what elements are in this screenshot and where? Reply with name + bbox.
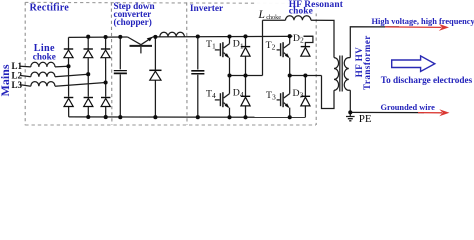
inverter leg B mid rail xyxy=(290,75,322,77)
svg-text:(chopper): (chopper) xyxy=(114,17,152,27)
T3 emitter arrowhead xyxy=(285,103,290,108)
diode D2 symbol xyxy=(301,47,310,57)
transformer core lines xyxy=(340,56,342,92)
junction: T1 collector top rail xyxy=(227,34,231,38)
svg-text:T3: T3 xyxy=(266,90,276,102)
dashed separator inverter/right (frame right edge) xyxy=(315,7,317,125)
svg-text:Rectifire: Rectifire xyxy=(30,3,70,14)
smoothing inductor on chopper output xyxy=(160,32,185,37)
T1 collector/emitter verticals xyxy=(229,37,231,76)
svg-text:D4: D4 xyxy=(233,87,244,99)
dashed frame top border xyxy=(25,2,316,3)
diode D1 branch xyxy=(245,36,247,75)
wire: bottom DC- rail xyxy=(69,116,306,118)
red grounded wire arrow xyxy=(418,112,442,114)
junction: L1 phase node xyxy=(66,64,70,68)
junction: D1 top rail xyxy=(243,34,247,38)
svg-text:Inverter: Inverter xyxy=(190,4,223,14)
chopper IGBT emitter diagonal with arrow xyxy=(141,37,153,45)
capacitor C2 branch verticals xyxy=(197,37,199,118)
white backing for D2 label xyxy=(292,32,303,41)
wire + line choke L3 phase row xyxy=(21,83,106,87)
diode D3 symbol xyxy=(301,96,310,106)
capacitor C1 plates xyxy=(114,70,127,73)
grounded wire black part xyxy=(350,111,424,113)
svg-text:Mains: Mains xyxy=(0,64,12,96)
PE ground symbol xyxy=(346,112,355,120)
junction: T1 emitter mid rail xyxy=(227,73,231,77)
wire: rectifier column 3 vertical xyxy=(105,37,107,117)
svg-text:T4: T4 xyxy=(206,89,216,101)
junction: L3 phase node xyxy=(104,80,108,84)
transformer secondary winding xyxy=(344,58,350,91)
junction: C1 bottom rail xyxy=(118,115,122,119)
capacitor C1 branch verticals xyxy=(119,37,121,117)
dashed frame bottom border xyxy=(25,124,316,126)
svg-text:Grounded wire: Grounded wire xyxy=(381,103,436,112)
inductor line-choke coil row 3 xyxy=(31,82,55,87)
riser from leg A mid to resonant choke xyxy=(262,20,264,75)
dashed separator rectifier/chopper xyxy=(110,2,113,125)
rectifier top diode column2 xyxy=(84,49,93,58)
junction: L3 column bottom rail xyxy=(104,115,108,119)
rectifier bottom diode column2 xyxy=(84,98,93,107)
transformer primary winding xyxy=(334,58,339,91)
junction: L2 column bottom rail xyxy=(86,115,90,119)
junction: T3 emitter bottom rail xyxy=(288,115,292,119)
T2 collector/emitter verticals xyxy=(289,36,291,75)
IGBT T1 xyxy=(215,42,230,57)
transformer secondary bottom lead xyxy=(349,90,351,112)
junction: C1 top rail xyxy=(118,35,122,39)
svg-text:PE: PE xyxy=(359,113,372,125)
IGBT T3 xyxy=(277,92,290,107)
inductor line-choke coil row 1 xyxy=(31,62,55,67)
svg-text:To discharge electrodes: To discharge electrodes xyxy=(381,75,473,85)
chopper IGBT gate lead xyxy=(140,47,142,54)
svg-text:choke: choke xyxy=(266,14,281,21)
junction: T4 emitter bottom rail xyxy=(227,115,231,119)
inverter leg A mid rail xyxy=(230,75,263,77)
svg-text:D3: D3 xyxy=(293,88,304,100)
wire: rectifier column 2 vertical xyxy=(87,37,89,117)
IGBT T4 xyxy=(215,92,230,107)
inductor line-choke coil row 2 xyxy=(31,72,55,77)
svg-text:D1: D1 xyxy=(233,39,244,51)
T4 collector/emitter verticals xyxy=(229,76,231,118)
junction: T2 collector top rail xyxy=(288,34,292,38)
diode D3 branch xyxy=(304,76,306,118)
IGBT T2 xyxy=(277,42,290,57)
red HV output arrow xyxy=(385,26,442,29)
svg-text:choke: choke xyxy=(289,6,313,16)
dashed separator chopper/inverter xyxy=(186,2,188,125)
T4 emitter arrowhead xyxy=(225,103,230,108)
svg-text:High voltage, high frequency: High voltage, high frequency xyxy=(372,17,474,26)
svg-text:L3: L3 xyxy=(12,80,23,90)
chopper freewheel diode branch vertical xyxy=(154,37,156,117)
diode D2 branch jog wire xyxy=(290,36,313,46)
chopper freewheel diode symbol xyxy=(149,70,161,80)
chopper IGBT gate bar xyxy=(130,45,153,47)
junction: L2 phase node xyxy=(86,72,90,76)
T1 emitter arrowhead xyxy=(225,53,230,58)
svg-text:L: L xyxy=(258,9,265,21)
svg-text:T1: T1 xyxy=(206,39,216,51)
junction: D1/D4 mid rail xyxy=(243,73,247,77)
transformer secondary top lead and HV output wire xyxy=(350,27,399,58)
svg-text:T2: T2 xyxy=(266,40,276,52)
svg-text:Transformer: Transformer xyxy=(362,35,372,90)
wire: rectifier column 1 vertical xyxy=(68,37,70,117)
wire + line choke L2 phase row xyxy=(21,74,89,77)
rectifier top diode column3 xyxy=(101,49,110,58)
white backing for HF Resonant choke label xyxy=(256,0,344,14)
rectifier bottom diode column1 xyxy=(64,98,73,107)
junction: T2 emitter mid rail xyxy=(288,73,292,77)
junction: D4 bottom rail xyxy=(243,115,247,119)
junction: C2 top rail xyxy=(196,34,200,38)
svg-text:D2: D2 xyxy=(293,33,304,45)
junction: L3 column top rail xyxy=(104,35,108,39)
dashed frame left border xyxy=(24,2,26,125)
T2 emitter arrowhead xyxy=(285,53,290,58)
wire from riser to resonant choke xyxy=(263,19,286,21)
wire: DC+ top rail right of chopper transistor xyxy=(153,35,313,38)
chopper IGBT emitter arrowhead xyxy=(147,37,153,42)
wire from resonant choke to transformer primary top xyxy=(311,20,334,57)
rectifier bottom diode column3 xyxy=(101,98,110,107)
junction: PE node on grounded wire xyxy=(348,110,352,114)
chopper IGBT collector diagonal xyxy=(128,37,141,45)
big hollow blue arrow to discharge electrodes xyxy=(392,56,435,72)
capacitor C2 plates xyxy=(191,71,204,74)
diode D4 branch xyxy=(245,76,247,118)
junction: D2/D3 mid rail xyxy=(303,73,307,77)
junction: L2 column top rail xyxy=(86,35,90,39)
junction: C2 bottom rail xyxy=(196,115,200,119)
wire + line choke L1 phase row xyxy=(21,65,69,68)
diode D1 symbol xyxy=(241,47,250,57)
T3 collector/emitter verticals xyxy=(289,76,291,118)
junction: freewheel diode top rail xyxy=(153,35,157,39)
svg-text:choke: choke xyxy=(33,51,56,61)
Z-route wire leg B mid to transformer primary bottom xyxy=(322,76,335,109)
HF resonant choke coil xyxy=(286,16,311,21)
diode D4 symbol xyxy=(241,96,250,106)
rectifier top diode column1 xyxy=(64,49,73,58)
wire: DC+ top rail left of chopper transistor xyxy=(69,36,128,38)
junction: freewheel diode bottom rail xyxy=(153,115,157,119)
